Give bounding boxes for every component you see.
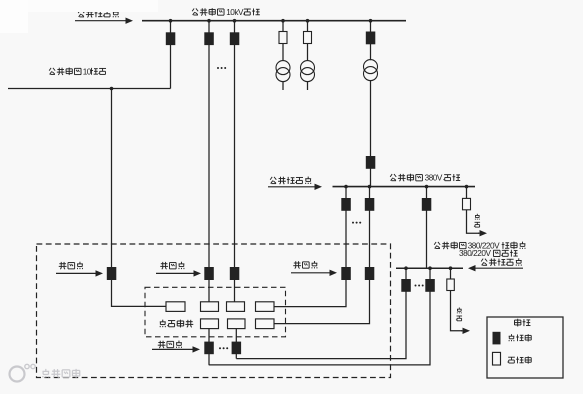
label 光伏电站 (PV station)	[160, 320, 194, 328]
arrow to 10kV bus	[75, 18, 133, 24]
label 并网点 4	[158, 341, 182, 349]
inverter INV7	[256, 319, 275, 329]
wire T3 to 380V bus (lower)	[370, 80, 372, 187]
arrow load 2	[461, 328, 470, 334]
svg-text:10: 10	[83, 67, 92, 76]
legend box	[487, 317, 563, 378]
arrow load	[478, 230, 487, 236]
inverter INV4	[256, 302, 275, 312]
legend fuse symbol	[493, 352, 501, 365]
legend breaker symbol	[493, 332, 501, 345]
wire feeder 3	[234, 21, 236, 302]
breaker QF16 (interconnection)	[204, 342, 214, 355]
background patch (decorative)	[0, 0, 158, 33]
node M3 on 380/220V bus	[449, 266, 453, 270]
label 并网点 3	[293, 261, 317, 269]
breaker QF13 (interconnection)	[107, 267, 117, 280]
wire load branch	[467, 187, 480, 234]
breaker QF15 (interconnection)	[230, 267, 240, 280]
fuse FU3	[463, 198, 471, 209]
wire to transformer T2	[307, 21, 309, 61]
node J4 on 10kV bus	[281, 19, 285, 23]
wire PV tie 2	[209, 268, 430, 365]
transformer T1	[276, 61, 290, 90]
node J2 on 10kV bus	[207, 19, 211, 23]
label 公共电网10线路	[49, 67, 106, 76]
breaker QF6	[341, 198, 351, 211]
node J6 on 10kV bus	[369, 19, 373, 23]
ellipsis dots between bottom breakers	[219, 347, 228, 349]
inverter INV5	[201, 319, 219, 329]
label 并网点 1	[59, 262, 83, 270]
transformer T2	[301, 61, 315, 90]
ellipsis dots between PV feeders	[352, 222, 361, 224]
breaker QF4	[366, 32, 376, 45]
svg-text:380V: 380V	[425, 174, 443, 183]
node M2 on 380/220V bus	[428, 266, 432, 270]
arrow 并网点 4	[152, 346, 200, 352]
watermark (decorative)	[10, 364, 80, 381]
fuse FU1	[279, 32, 287, 44]
wire PV feeder A	[274, 187, 347, 307]
svg-text:380/220V: 380/220V	[459, 249, 491, 258]
transformer T3	[364, 60, 378, 81]
inverter INV3	[227, 302, 245, 312]
breaker QF11	[401, 279, 411, 292]
inverter INV2	[201, 302, 219, 312]
arrow to 380/220V bus	[468, 265, 523, 271]
arrow 并网点 3	[291, 270, 337, 276]
node K1 on 380V bus	[344, 185, 348, 189]
label 公共连接点 (PCC at service line)	[481, 258, 521, 266]
wire 10kV line	[8, 88, 171, 90]
ellipsis dots on 380/220V bus drops	[415, 285, 424, 287]
label 公共电网380/220V配电箱	[434, 241, 525, 250]
node J5 on 10kV bus	[306, 19, 310, 23]
inverter INV1	[166, 302, 185, 312]
380/220V bus	[396, 267, 463, 269]
wire to transformer T1	[282, 21, 284, 61]
breaker QF17 (interconnection)	[232, 342, 242, 355]
node J7 on 10kV line	[110, 87, 114, 91]
wire service load branch	[451, 268, 463, 331]
breaker QF12	[425, 279, 435, 292]
PV station inner dashed box	[145, 287, 286, 337]
breaker QF9 (interconnection)	[365, 267, 375, 280]
10kV bus	[142, 20, 406, 22]
breaker QF2	[204, 32, 214, 45]
label 公共电网380V母线	[390, 174, 460, 183]
breaker QF3	[230, 32, 240, 45]
svg-text:10kV: 10kV	[226, 8, 244, 17]
label 断路器 (breaker)	[509, 334, 532, 341]
wire PV feeder B	[274, 187, 370, 324]
breaker QF10	[422, 198, 432, 211]
node K4 on 380V bus	[465, 185, 469, 189]
wire feeder 2	[208, 21, 210, 302]
label 并网点 2	[160, 262, 184, 270]
label 公共连接点 (PCC, top-left)	[78, 10, 119, 18]
fuse FU2	[304, 32, 312, 44]
label 图例 (legend)	[515, 319, 531, 327]
wire to 380/220V distribution bus	[426, 187, 428, 269]
wire 10kV to T3 (upper)	[370, 21, 372, 61]
ellipsis dots between feeders	[217, 67, 226, 69]
label 熔断器 (fuse)	[508, 356, 532, 363]
arrow to 380V bus	[268, 184, 322, 190]
label 380/220V架空线	[459, 249, 518, 258]
wire PV tie 1	[236, 268, 406, 358]
wire drop to 10kV line	[170, 21, 172, 89]
breaker QF8	[365, 198, 375, 211]
380V bus	[333, 186, 476, 188]
wire INV5 to tie	[208, 329, 210, 365]
PV plant outer dashed boundary	[37, 244, 391, 378]
arrow 并网点 1	[56, 270, 103, 276]
wire 10kV line to INV1	[112, 89, 167, 307]
node K3 on 380V bus	[425, 185, 429, 189]
label 公共连接点 (PCC at 380V bus)	[270, 177, 311, 185]
breaker QF14 (interconnection)	[204, 267, 214, 280]
fuse FU4	[447, 279, 455, 291]
node J1 on 10kV bus	[169, 19, 173, 23]
label 负荷 (load, vertical)	[474, 214, 480, 227]
breaker QF5	[366, 156, 376, 169]
breaker QF7 (interconnection)	[341, 267, 351, 280]
breaker QF1	[166, 32, 176, 45]
node M1 on 380/220V bus	[404, 266, 408, 270]
inverter INV6	[228, 319, 246, 329]
label 负荷 (load 2, vertical)	[456, 307, 462, 320]
wire INV6 to tie	[235, 329, 237, 359]
arrow 并网点 2	[156, 270, 201, 276]
node K2 on 380V bus	[368, 185, 372, 189]
node J3 on 10kV bus	[233, 19, 237, 23]
label 公共电网10kV母线	[192, 8, 260, 17]
